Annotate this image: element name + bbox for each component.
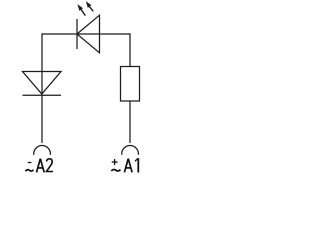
tilde mark at A1 xyxy=(111,169,120,171)
label A2 digit 2 xyxy=(46,159,53,172)
LED arrow 1 shaft xyxy=(81,9,85,15)
label A2 letter A xyxy=(37,159,45,173)
resistor R1 xyxy=(121,67,140,102)
plus mark at A1 xyxy=(112,161,118,163)
diode V2 cathode bar xyxy=(23,94,62,96)
LED arrow 2 head xyxy=(86,1,92,8)
minus mark at A2 xyxy=(28,162,32,164)
tilde mark at A2 xyxy=(25,170,33,172)
LED V1 cathode bar xyxy=(76,19,78,49)
wire top rail xyxy=(42,33,130,35)
label A1 digit 1 xyxy=(135,158,138,172)
LED arrow 1 head xyxy=(77,4,83,11)
LED V1 triangle xyxy=(77,15,100,53)
terminal socket A2 xyxy=(34,146,51,155)
wire right vertical upper xyxy=(129,33,131,66)
LED arrow 2 shaft xyxy=(89,6,93,11)
terminal socket A1 xyxy=(122,146,139,155)
wire left vertical xyxy=(41,33,43,143)
label A1 letter A xyxy=(124,159,132,173)
wire right vertical lower xyxy=(129,101,131,143)
diode V2 xyxy=(23,72,62,95)
